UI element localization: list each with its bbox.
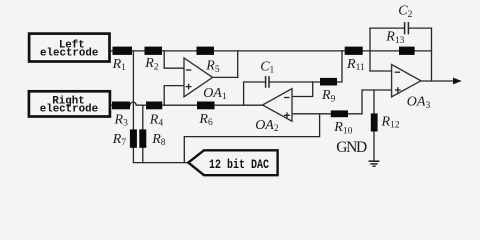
svg-text:R1: R1 (112, 57, 127, 73)
svg-text:12 bit DAC: 12 bit DAC (209, 158, 269, 172)
svg-text:R5: R5 (205, 59, 220, 75)
svg-text:R2: R2 (144, 56, 159, 72)
svg-text:R10: R10 (333, 120, 352, 136)
svg-text:R12: R12 (381, 114, 400, 130)
svg-text:C2: C2 (398, 4, 412, 20)
svg-text:electrode: electrode (40, 104, 98, 116)
svg-text:R11: R11 (346, 57, 365, 73)
svg-text:R9: R9 (321, 88, 336, 104)
svg-text:OA3: OA3 (407, 95, 431, 111)
svg-text:R13: R13 (385, 30, 404, 46)
svg-text:electrode: electrode (40, 47, 98, 59)
svg-text:OA1: OA1 (203, 86, 227, 102)
svg-text:OA2: OA2 (255, 118, 279, 134)
svg-text:R8: R8 (151, 132, 166, 148)
svg-text:C1: C1 (260, 60, 274, 76)
svg-text:R4: R4 (149, 113, 164, 129)
svg-text:R6: R6 (198, 112, 213, 128)
svg-text:GND: GND (336, 139, 367, 156)
svg-text:R3: R3 (114, 113, 129, 129)
svg-text:R7: R7 (112, 132, 127, 148)
